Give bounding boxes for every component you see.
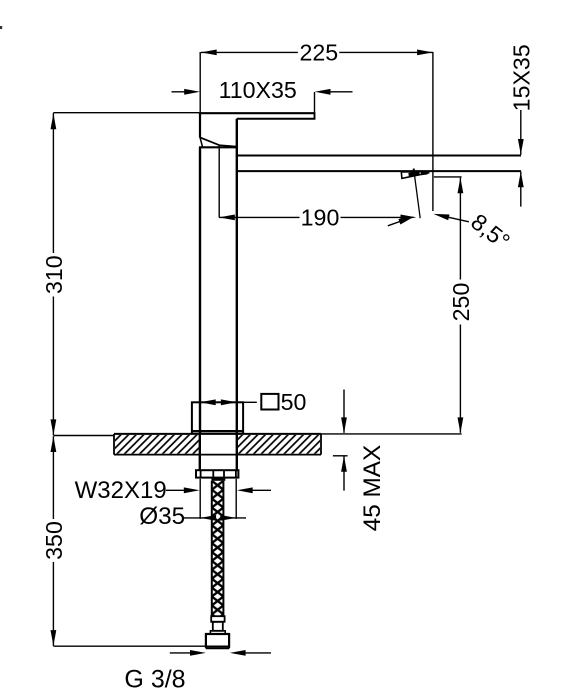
svg-text:310: 310 [41,255,67,294]
svg-text:15X35: 15X35 [508,44,534,111]
svg-text:250: 250 [448,283,474,322]
svg-text:50: 50 [281,389,307,415]
svg-text:Ø35: Ø35 [139,503,185,530]
svg-text:225: 225 [299,40,338,66]
svg-text:W32X19: W32X19 [75,477,167,504]
svg-text:110X35: 110X35 [219,77,297,103]
svg-text:190: 190 [301,205,340,231]
svg-text:350: 350 [41,521,67,560]
svg-text:45 MAX: 45 MAX [359,445,386,531]
svg-text:G 3/8: G 3/8 [124,665,185,693]
